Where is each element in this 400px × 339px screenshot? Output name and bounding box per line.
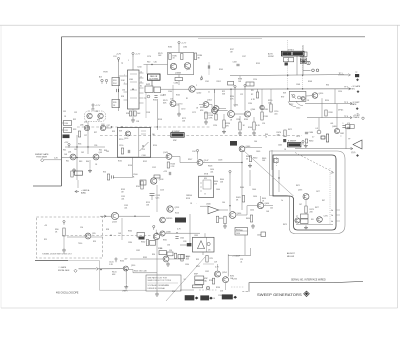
resistor R184 [194,53,196,60]
svg-text:C14: C14 [166,285,169,287]
wire Q37 to bus [106,127,112,129]
wire into lamp box [180,244,187,246]
svg-text:C16: C16 [170,99,173,101]
transistor Q234 [228,111,235,118]
dark small box left lower [75,171,83,175]
junction x135 [134,216,135,217]
svg-text:TP28: TP28 [103,72,108,74]
svg-text:R24: R24 [113,80,116,82]
svg-text:.001: .001 [274,113,278,115]
wire Q130 emitter down [125,271,127,285]
small box below Q180 box [175,78,183,81]
svg-text:R37: R37 [94,132,97,134]
wire x262 bus drop [261,89,263,104]
wire x157 up from switch boxes [151,80,153,86]
capacitor C209 [208,65,210,68]
svg-text:R450: R450 [219,218,223,220]
timing box marks [141,131,146,147]
wire x157 ext to timing box [156,127,158,130]
svg-text:C352: C352 [205,271,209,273]
faint line cont to loop [68,260,100,262]
wire y157.6 main lower bus [62,157,167,159]
svg-text:Q473: Q473 [298,190,302,192]
lamp circle [207,242,210,245]
U30 pin stubs right [139,73,144,103]
transistor Q33 [87,113,92,118]
vertical x157 long [156,240,158,292]
wire lamp box bottom stub [202,252,204,255]
wire x147 to dark box [146,65,148,75]
svg-text:Q480: Q480 [332,126,336,128]
svg-text:470: 470 [226,126,229,128]
svg-text:+12V: +12V [116,54,122,56]
wire x322 down to TP4 line [321,98,323,117]
svg-text:14: 14 [140,82,142,84]
svg-text:Q244: Q244 [251,109,256,111]
diamond below triangle [356,154,359,157]
label R332 boxes [150,240,156,245]
pin stubs outside enclosure [336,210,340,221]
svg-text:C40: C40 [154,62,157,64]
wire Q224 top [214,89,216,107]
power +12V stub A [234,85,236,89]
power node left column2 [68,143,70,147]
svg-text:Q294: Q294 [222,272,227,274]
feedback loop wire [100,261,147,291]
ground in TD box [62,248,66,252]
wire x346 down [345,127,347,149]
dark label box DELAYED TRIGGER [282,51,305,56]
transistor Q473 in enclosure [303,194,309,200]
svg-text:Q213: Q213 [175,207,180,209]
wire power Q147 [197,154,199,160]
svg-text:R152: R152 [143,161,147,163]
svg-text:C44: C44 [222,202,225,204]
transistor pair dashed oval Q33 Q34 [85,111,106,122]
capacitor C25 [117,89,119,92]
svg-text:(REF): (REF) [123,291,128,293]
connector pair bottom left of IC [101,79,108,84]
wire gate to connector [79,268,97,270]
svg-text:+12V: +12V [181,43,187,45]
svg-text:DLY TRIG: DLY TRIG [149,78,158,80]
svg-text:R29: R29 [210,258,213,260]
svg-text:R454: R454 [246,218,250,220]
dashed stub x276 [276,157,278,167]
wire to IC pin [119,75,124,77]
dark label SWP GEN GATE [185,295,199,300]
svg-text:C176: C176 [147,56,151,58]
wire y264 stub [203,263,214,265]
svg-text:C1: C1 [208,92,210,94]
gate input diamond [74,269,77,272]
svg-text:R244: R244 [244,119,248,121]
svg-text:.001: .001 [210,171,213,173]
svg-text:C308: C308 [296,84,300,86]
svg-text:R1: R1 [186,98,188,100]
svg-text:2: 2 [196,85,197,87]
wire x279 enclosure notch [278,170,280,192]
wire x242 down [241,152,243,206]
svg-text:R32: R32 [73,119,76,121]
ground R244 [252,131,256,135]
wire y89 to Q160 [161,88,189,90]
svg-text:C30: C30 [122,90,125,92]
sweep gate input diamond [41,159,44,162]
wire y206 right of Q454 [264,205,273,207]
svg-text:C90: C90 [80,227,83,229]
timing box divider [138,128,140,158]
dotted switch linkage x287.7 [287,40,289,89]
transistor Q36 [84,125,89,130]
transistor Q450 [229,212,236,219]
svg-text:B98: B98 [195,235,198,237]
ground R234 [238,131,242,135]
page edge bottom [1,307,398,309]
ground below Q43 [88,169,92,173]
svg-text:R199: R199 [256,63,260,65]
wire x190 lamp feed [189,214,191,243]
wire Q164 to Q166 [199,104,203,106]
ground below R164 [204,120,208,124]
junction mid dash [110,235,111,236]
U30 pin stubs left [124,76,128,100]
lamp box divider [206,237,208,252]
test point circle bottom [206,286,209,289]
wire Q450 to Q454 [236,206,258,215]
cluster small x262 y105 [260,105,264,109]
capacitor C177 [175,237,178,239]
svg-text:B SWEEP: B SWEEP [288,141,297,143]
dark blob x286 [285,63,289,66]
svg-text:R218: R218 [186,198,190,200]
wire y147 cross [65,146,105,148]
transistor Q244 [245,111,251,117]
wire Q454 up [260,196,262,202]
transistor Q185 [184,62,190,68]
wire Q170 emitter [176,104,179,106]
svg-text:R154: R154 [153,145,157,147]
box C near x140-146 [140,180,146,185]
wire y233 right of Q330 [166,232,201,234]
svg-text:C477: C477 [316,191,320,193]
capacitor C208 [236,64,239,66]
resistor R166 [215,114,217,120]
diamond TP2 [357,90,360,93]
svg-text:R41: R41 [63,150,66,152]
svg-text:R471: R471 [296,185,300,187]
resistor R90 in TD box [63,228,65,236]
ground below U30 [131,118,135,122]
svg-text:C152: C152 [152,167,156,169]
resistor R452 [216,216,218,222]
svg-text:2T: 2T [296,216,298,218]
svg-text:C22: C22 [240,94,243,96]
svg-text:TRACE: TRACE [353,116,360,119]
ground Q340 [166,262,170,266]
connector stub x201 [200,76,202,80]
resistor R441 left [242,196,244,203]
svg-text:C33: C33 [95,111,98,113]
resistor R490 dark [326,134,328,142]
transistor Q330 pairA [153,233,159,239]
U30 pin numbers [124,72,142,85]
lamp box B98 [193,237,215,252]
transistor Q166 [213,106,219,112]
svg-text:C24: C24 [262,123,265,125]
resistor R294 [212,278,214,284]
power above box B [229,170,231,174]
svg-text:S1: S1 [140,85,142,87]
wire x250 up [250,248,252,256]
bottom boxes cluster x235-248 [235,228,248,236]
svg-text:CR3: CR3 [183,241,186,243]
wire box to Q310 [306,95,312,97]
svg-text:C24: C24 [113,56,116,58]
svg-text:C310: C310 [338,91,342,93]
svg-text:Q147: Q147 [204,160,209,162]
svg-text:R130: R130 [120,261,124,263]
dark label A SWEEP [171,133,184,138]
svg-text:TD90: TD90 [78,243,82,245]
svg-text:C332: C332 [136,250,140,252]
arrow line into triangle y148.5 [295,148,352,150]
transistor Q95 in TD box [85,233,91,239]
svg-text:R472: R472 [288,129,292,131]
svg-text:MILLER: MILLER [287,256,295,258]
svg-text:R146 746 C146: R146 746 C146 [134,271,147,273]
svg-text:UNDER NO SIGNAL: UNDER NO SIGNAL [148,287,166,290]
svg-text:Q41: Q41 [68,152,71,154]
svg-text:SWEEP GENERATORS: SWEEP GENERATORS [257,292,302,297]
diode into lamp box [187,243,192,246]
svg-text:Q133: Q133 [112,222,117,224]
ground R454 [251,224,255,228]
schematic border left [61,37,63,186]
svg-text:A SWEEP: A SWEEP [172,130,181,133]
svg-text:C440: C440 [216,189,220,191]
junction x177 [176,232,177,233]
transistor Q130 miller [123,266,128,271]
small box pair y82 [246,82,254,86]
dark label HOLDOFF [175,218,186,223]
svg-text:SW B: SW B [204,174,208,176]
resistor R143 [167,162,169,168]
rule above title [249,281,363,291]
svg-text:AVAIL: AVAIL [81,192,86,195]
wire x271 bus drop [270,89,272,99]
wire enclosure bottom bus [296,224,333,226]
svg-text:Q37: Q37 [107,125,110,127]
svg-text:R180: R180 [168,47,172,49]
resistor R248 [261,112,263,120]
connector circle G [317,130,321,134]
marks in box B [200,183,202,191]
svg-text:R158: R158 [158,119,162,121]
wire IC to box y64.5 [144,64,168,66]
dark label 2 [200,295,213,300]
small dark box right [301,59,306,63]
svg-text:Q180B: Q180B [175,72,182,74]
svg-text:R50: R50 [103,172,106,174]
transistor Q37 [100,125,105,130]
resistor R480 [305,139,307,143]
page edge left [0,25,2,308]
wire y216 left of Q133 [100,215,111,217]
svg-text:C208: C208 [233,62,237,64]
svg-text:C31: C31 [63,111,66,113]
wire border to R30 [62,122,64,124]
power +12V node left column [117,57,119,61]
svg-text:TUNNEL DIODE SWITCHING CKT: TUNNEL DIODE SWITCHING CKT [42,254,73,256]
svg-text:C330: C330 [128,242,132,244]
dashed shield box tunnel diode [37,217,103,258]
power +12V stub B [244,84,246,88]
power stub in TD box [63,220,65,224]
svg-text:+C LAMP: +C LAMP [232,255,241,258]
svg-text:C158: C158 [146,112,150,114]
diagonal wire D0 into enclosure notch [244,151,294,196]
svg-text:SWP: SWP [204,278,208,280]
svg-text:+12V: +12V [135,54,141,56]
wires Q294 Q296 verticals [217,264,219,271]
timing box small parts [121,148,123,154]
capacitor C153 [150,194,155,201]
svg-text:C164: C164 [168,91,172,93]
tick on bus x240 [239,76,241,79]
svg-text:R34: R34 [152,254,155,256]
resistor R26b below U30 [134,111,136,116]
resistor R224 [223,120,225,128]
svg-text:C172: C172 [192,112,196,114]
svg-text:R91: R91 [44,239,47,241]
small box below timing box [154,175,160,178]
svg-text:C201: C201 [205,81,209,83]
wire x231 up [230,89,232,110]
svg-text:R330: R330 [128,231,132,233]
resistor box R24 [112,78,120,86]
faint vertical x209 [208,62,210,75]
svg-text:R331: R331 [163,240,167,242]
resistor R450 [224,216,226,224]
svg-text:R3: R3 [251,90,253,92]
connector circle pair arrow [303,69,319,72]
svg-text:R246: R246 [248,127,252,129]
svg-text:SEL: SEL [240,230,243,232]
svg-text:C170: C170 [181,109,185,111]
diamond TP1 [356,78,359,81]
svg-text:R98: R98 [106,229,109,231]
svg-text:Q234: Q234 [234,105,239,107]
wire y147 right [245,147,262,149]
curved wires y101-106 [288,101,303,107]
vertical tick x240 y114-122 [239,116,241,122]
wire to Q170 [172,85,174,101]
wire x132 up [132,158,134,178]
svg-text:Q95: Q95 [92,233,96,235]
vertical x337 [336,104,338,129]
cluster boxes y250-260 [159,251,167,255]
svg-text:(TP)45: (TP)45 [338,110,343,112]
svg-text:C213: C213 [160,190,164,192]
small box pair above x303 [300,52,307,57]
resistor R318 [325,110,327,116]
svg-text:C150: C150 [119,145,123,147]
dotted switch linkage x302.6 [302,46,304,89]
TP3 wire y103.5 [305,103,351,105]
svg-text:R39: R39 [112,131,115,133]
vertical tick x224 y114-120 [223,114,225,120]
wire power to Q33 [92,108,94,111]
ground below Q170 [177,112,181,116]
svg-text:R30: R30 [326,85,329,87]
power +100V stub [115,258,117,262]
svg-text:R43: R43 [79,161,82,163]
svg-text:R201: R201 [217,81,221,83]
test point circle TP30 [147,95,150,98]
wire Q330 up [155,230,157,234]
wire x245 down [244,235,246,255]
svg-text:6.3: 6.3 [316,128,319,130]
resistor R350 left [181,254,183,261]
svg-text:R248: R248 [264,109,268,111]
svg-text:.001: .001 [330,123,333,125]
svg-text:2N2369: 2N2369 [166,218,172,220]
transistor Q310 [312,93,318,99]
svg-text:C473: C473 [296,136,300,138]
connector circle right of TP4 [362,117,364,119]
page edge right [397,25,399,308]
svg-text:TP 1: TP 1 [339,73,343,75]
svg-text:R480: R480 [309,141,313,143]
svg-text:←: ← [196,203,198,205]
wire x335 bus to TP3 line [334,89,336,104]
svg-text:TP 3: TP 3 [344,102,348,104]
svg-text:R36: R36 [78,144,81,146]
svg-text:C224: C224 [213,125,217,127]
transistor Q164 [203,102,209,108]
svg-text:C41: C41 [74,149,77,151]
svg-text:R150: R150 [119,139,123,141]
wire +12V to box [178,46,180,53]
svg-text:C148: C148 [218,160,222,162]
svg-text:3b: 3b [331,210,333,212]
dark label box left [63,135,70,139]
svg-text:R31: R31 [65,130,68,132]
power +12V node Q180 [178,41,187,45]
svg-text:.047: .047 [124,259,127,261]
diamond TP3 [356,107,359,110]
svg-text:R332: R332 [141,242,145,244]
switch arm diagonal in timing box [140,142,149,151]
resistor box R31 [64,128,72,133]
svg-text:C465: C465 [278,145,282,147]
wire Q143 to Q147 [172,157,197,163]
svg-text:Q164: Q164 [207,100,212,102]
svg-text:.01: .01 [240,261,242,263]
svg-text:SEE PARTS LIST FOR: SEE PARTS LIST FOR [148,276,168,279]
svg-text:78: 78 [357,114,359,116]
svg-text:R41: R41 [66,161,69,163]
svg-text:C210: C210 [253,79,257,81]
junction dots on bus y89 [287,88,288,89]
svg-text:(2)(3): (2)(3) [351,152,356,154]
box TP478 double [346,123,355,129]
svg-text:C37: C37 [84,135,87,137]
svg-text:C32: C32 [74,112,77,114]
svg-text:R220: R220 [200,107,205,109]
svg-text:C312: C312 [296,108,300,110]
